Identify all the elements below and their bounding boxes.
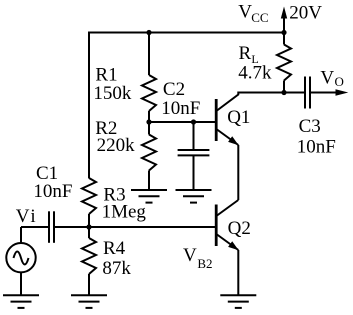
svg-text:20V: 20V (289, 3, 322, 24)
svg-text:4.7k: 4.7k (238, 63, 272, 84)
svg-text:Q2: Q2 (228, 218, 251, 239)
svg-text:10nF: 10nF (297, 137, 336, 158)
svg-text:C2: C2 (163, 79, 185, 100)
svg-text:150k: 150k (93, 83, 131, 104)
svg-text:V: V (183, 245, 197, 266)
svg-text:Vi: Vi (16, 206, 38, 227)
svg-text:C3: C3 (299, 116, 321, 137)
svg-text:V: V (320, 68, 334, 89)
svg-text:O: O (335, 74, 344, 89)
svg-text:1Meg: 1Meg (102, 202, 147, 223)
svg-text:10nF: 10nF (33, 181, 72, 202)
svg-text:R: R (239, 43, 252, 64)
svg-text:B2: B2 (197, 256, 212, 271)
svg-text:R4: R4 (103, 238, 126, 259)
svg-text:CC: CC (251, 10, 268, 25)
svg-text:Q1: Q1 (227, 107, 250, 128)
svg-text:87k: 87k (102, 258, 131, 279)
svg-text:10nF: 10nF (161, 98, 200, 119)
svg-text:220k: 220k (97, 135, 136, 156)
svg-text:V: V (238, 2, 252, 23)
